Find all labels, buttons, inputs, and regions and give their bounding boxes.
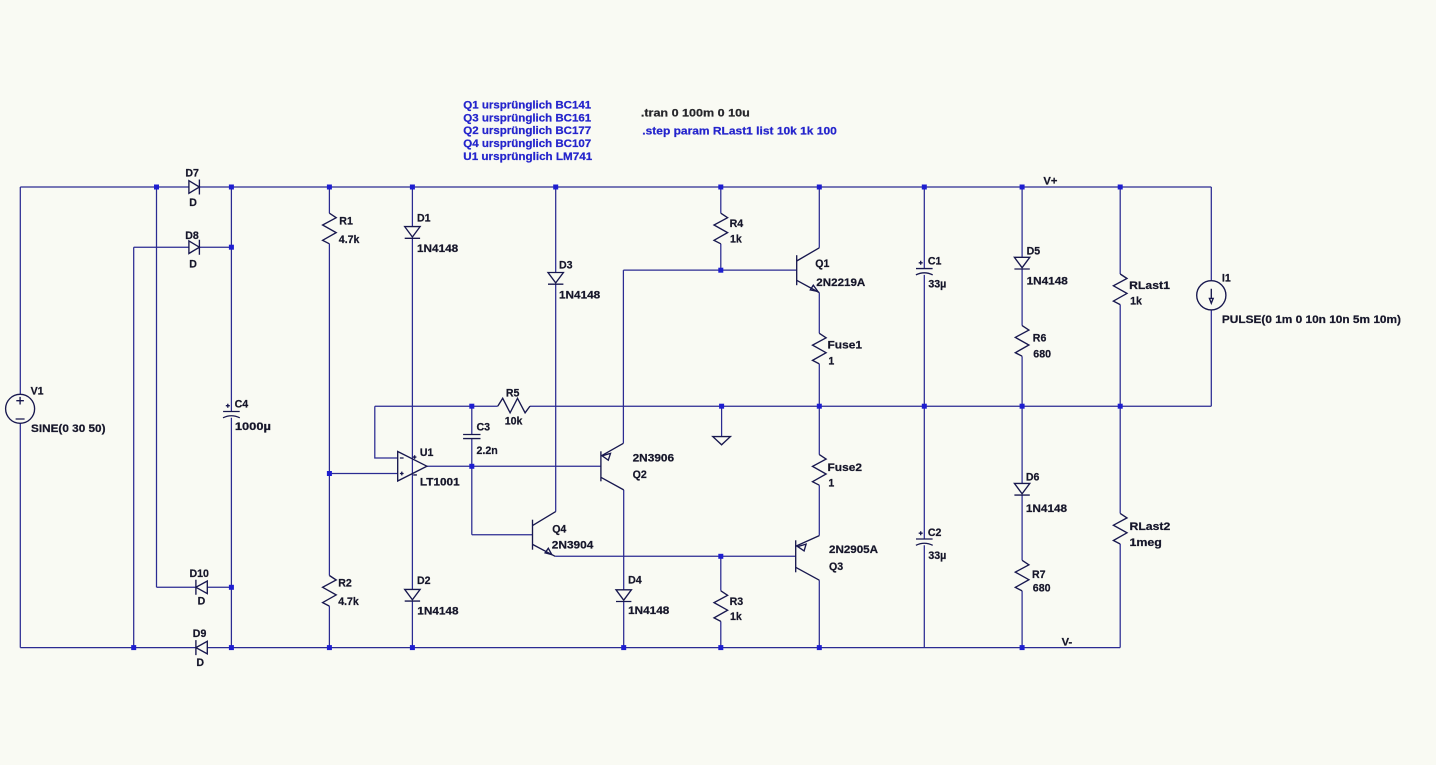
svg-text:C3: C3 [477, 421, 491, 433]
wire R3 column [720, 556, 722, 647]
capacitor C4 body [223, 411, 240, 413]
svg-text:2.2n: 2.2n [477, 445, 498, 457]
node bottom rail / D4 [621, 645, 626, 650]
svg-text:R4: R4 [730, 218, 744, 230]
svg-text:R5: R5 [506, 387, 520, 399]
svg-text:D9: D9 [193, 628, 207, 640]
node bottom rail / C4 column [229, 645, 234, 650]
svg-text:Q4 ursprünglich BC107: Q4 ursprünglich BC107 [463, 138, 591, 150]
svg-text:D1: D1 [417, 213, 431, 225]
node top rail / D1 [410, 185, 415, 190]
svg-text:2N2905A: 2N2905A [829, 544, 878, 556]
wire Q3 collector down [818, 580, 820, 647]
svg-text:C2: C2 [928, 527, 942, 539]
node bottom rail / D8 column [131, 645, 136, 650]
wire Fuse1 to mid rail [818, 364, 820, 455]
wire D6 R7 column [1021, 406, 1023, 647]
svg-text:U1 ursprünglich LM741: U1 ursprünglich LM741 [463, 151, 592, 163]
svg-text:1k: 1k [730, 234, 742, 246]
svg-text:R1: R1 [339, 216, 353, 228]
node top rail / D10 branch [154, 185, 159, 190]
diode D6 body [1014, 483, 1029, 495]
svg-text:1: 1 [828, 356, 834, 368]
node mid rail / RLast1 RLast2 [1118, 404, 1123, 409]
capacitor C3 body [463, 435, 480, 439]
node bottom rail / D2 [410, 645, 415, 650]
svg-text:Fuse1: Fuse1 [828, 340, 863, 352]
svg-text:D6: D6 [1026, 471, 1040, 483]
svg-text:1k: 1k [1130, 295, 1142, 307]
svg-text:V1: V1 [31, 386, 44, 398]
transistor Q4 2N3904 [532, 520, 534, 550]
svg-text:.step param RLast1 list 10k 1k: .step param RLast1 list 10k 1k 100 [642, 126, 837, 138]
wire R4 column [720, 187, 722, 270]
svg-text:Fuse2: Fuse2 [828, 462, 863, 474]
node top rail / C4 [229, 185, 234, 190]
svg-text:V-: V- [1062, 636, 1073, 648]
svg-text:1N4148: 1N4148 [1027, 275, 1068, 287]
node op-amp plus input / R1 R2 [327, 471, 332, 476]
svg-text:2N3906: 2N3906 [633, 453, 675, 465]
transistor Q1 2N2219A [796, 255, 798, 285]
wire Q4 emitter to Q3 base [555, 555, 796, 557]
diode D8 body [189, 240, 200, 255]
svg-text:D2: D2 [417, 575, 431, 587]
node top rail / D3 [553, 185, 558, 190]
svg-text:1N4148: 1N4148 [417, 243, 458, 255]
svg-text:D: D [189, 197, 197, 209]
svg-text:D3: D3 [559, 260, 573, 272]
node top rail / C1 [922, 185, 927, 190]
diode D3 body [548, 273, 563, 285]
wire mid rail [375, 405, 1212, 407]
wire RLast2 column [1119, 406, 1121, 647]
svg-text:1meg: 1meg [1130, 537, 1162, 549]
svg-text:D10: D10 [190, 568, 210, 580]
resistor Fuse2 body [813, 455, 827, 486]
wire left edge V1 column [19, 187, 21, 648]
svg-text:4.7k: 4.7k [339, 234, 360, 246]
wire ground stem [721, 406, 723, 436]
diode D4 body [616, 590, 631, 602]
svg-text:D: D [189, 258, 197, 270]
svg-text:2N3904: 2N3904 [552, 540, 594, 552]
resistor R1 body [323, 213, 337, 244]
svg-text:RLast2: RLast2 [1130, 521, 1171, 533]
svg-text:1N4148: 1N4148 [1026, 503, 1067, 515]
wire D8 branch [134, 246, 232, 248]
svg-text:D5: D5 [1027, 246, 1041, 258]
svg-text:1000µ: 1000µ [235, 421, 271, 433]
svg-text:I1: I1 [1222, 273, 1231, 285]
wire top rail to D10 [156, 187, 158, 587]
diode D5 body [1014, 257, 1029, 269]
wire Q2 collector to D4 [623, 490, 625, 648]
node bottom rail / R3 [718, 645, 723, 650]
resistor R3 body [714, 591, 728, 622]
diode D10 body [196, 580, 207, 595]
node bottom rail / R7 [1020, 645, 1025, 650]
svg-text:V+: V+ [1043, 176, 1057, 188]
wire RLast1 column [1119, 187, 1121, 406]
transistor Q2 2N3906 [600, 451, 602, 481]
svg-text:D7: D7 [185, 168, 199, 180]
node mid rail / C3 R5 [469, 404, 474, 409]
resistor R7 body [1015, 560, 1029, 591]
svg-text:U1: U1 [420, 447, 434, 459]
capacitor C2 body [916, 538, 933, 540]
capacitor C1 body [916, 268, 933, 270]
diode D7 body [189, 180, 200, 195]
svg-text:680: 680 [1033, 349, 1051, 361]
node top rail / R4 [718, 185, 723, 190]
svg-text:D: D [198, 596, 206, 608]
node mid rail / ground [719, 404, 724, 409]
wire op-amp inverting input feedback [375, 406, 398, 458]
wire Q1 collector up [818, 187, 820, 248]
svg-text:D8: D8 [185, 230, 199, 242]
wire R1 R2 column [328, 187, 330, 648]
voltage source V1 [6, 394, 35, 423]
svg-text:4.7k: 4.7k [338, 596, 359, 608]
svg-text:1N4148: 1N4148 [559, 290, 600, 302]
wire top rail V+ [20, 186, 1211, 188]
transistor Q3 2N2905A [795, 540, 797, 572]
wire Q4 base [472, 534, 533, 536]
svg-text:D: D [196, 657, 204, 669]
node bottom rail / Q3 collector [817, 645, 822, 650]
node mid rail / C1 C2 [922, 404, 927, 409]
resistor R4 body [714, 213, 728, 244]
svg-text:2N2219A: 2N2219A [816, 277, 865, 289]
node top rail / D5 [1020, 185, 1025, 190]
svg-text:33µ: 33µ [928, 550, 946, 562]
svg-text:Q1: Q1 [815, 258, 829, 270]
node op-amp output / C3 [469, 464, 474, 469]
svg-text:LT1001: LT1001 [420, 477, 460, 489]
diode D9 body [196, 640, 207, 655]
svg-text:Q3: Q3 [829, 561, 843, 573]
wire D3 to Q4 collector [555, 187, 557, 512]
svg-text:Q1 ursprünglich BC141: Q1 ursprünglich BC141 [463, 99, 591, 111]
svg-text:Q4: Q4 [552, 524, 566, 536]
svg-text:RLast1: RLast1 [1129, 280, 1170, 292]
svg-text:.tran 0 100m 0 10u: .tran 0 100m 0 10u [641, 107, 750, 119]
node D10 / C4 column [229, 585, 234, 590]
wire I1 column [1210, 187, 1212, 406]
resistor R2 body [323, 576, 337, 607]
svg-text:1N4148: 1N4148 [628, 605, 669, 617]
node mid rail / R6 D6 [1020, 404, 1025, 409]
wire D1 D2 column [411, 187, 413, 648]
svg-text:R6: R6 [1033, 333, 1047, 345]
svg-text:SINE(0 30 50): SINE(0 30 50) [31, 423, 106, 435]
svg-text:33µ: 33µ [928, 278, 946, 290]
node R3 / Q3 base [718, 554, 723, 559]
svg-text:Q3 ursprünglich BC161: Q3 ursprünglich BC161 [463, 112, 591, 124]
svg-text:R7: R7 [1032, 569, 1046, 581]
node top rail / R1 [327, 185, 332, 190]
current source I1 [1197, 281, 1226, 310]
wire D5 R6 column [1021, 187, 1023, 406]
svg-text:PULSE(0 1m 0 10n 10n 5m 10m): PULSE(0 1m 0 10n 10n 5m 10m) [1222, 314, 1401, 326]
ground [713, 437, 731, 445]
svg-text:C4: C4 [235, 398, 249, 410]
wire D8 to bottom rail [133, 247, 135, 647]
svg-text:10k: 10k [505, 415, 523, 427]
node bottom rail / R2 [327, 645, 332, 650]
diode D2 body [405, 589, 420, 601]
wire C4 column [230, 187, 232, 648]
svg-text:Q2 ursprünglich BC177: Q2 ursprünglich BC177 [463, 125, 591, 137]
wire D10 branch [157, 586, 232, 588]
resistor R6 body [1015, 326, 1029, 357]
node top rail / RLast1 [1118, 185, 1123, 190]
svg-text:1k: 1k [730, 611, 742, 623]
wire Q1 emitter to Fuse1 [818, 293, 820, 334]
resistor R5 body [498, 398, 530, 413]
svg-text:D4: D4 [628, 574, 642, 586]
wire op-amp noninverting input [329, 473, 397, 475]
wire Q2 emitter up [622, 270, 624, 443]
wire C1 C2 column [923, 187, 925, 648]
wire bottom rail V- [20, 647, 1120, 649]
wire Q2 emitter to Q1 base [623, 269, 796, 271]
resistor RLast2 body [1113, 513, 1127, 544]
resistor RLast1 body [1113, 274, 1127, 305]
svg-text:R2: R2 [338, 577, 352, 589]
svg-text:C1: C1 [928, 256, 942, 268]
op-amp U1 [398, 452, 427, 482]
svg-text:Q2: Q2 [633, 469, 647, 481]
node D8 / C4 column [229, 245, 234, 250]
diode D1 body [405, 227, 420, 239]
node top rail / Q1 collector [817, 185, 822, 190]
resistor Fuse1 body [813, 333, 827, 364]
svg-text:1N4148: 1N4148 [417, 605, 458, 617]
node mid rail / fuses [817, 404, 822, 409]
wire Fuse2 to Q3 emitter [818, 485, 820, 535]
svg-text:1: 1 [828, 478, 834, 490]
svg-text:680: 680 [1033, 583, 1051, 595]
svg-text:R3: R3 [730, 596, 744, 608]
wire op-amp output to Q2 base [427, 465, 601, 467]
wire C3 column [471, 406, 473, 535]
node R4 / Q1 base [718, 268, 723, 273]
